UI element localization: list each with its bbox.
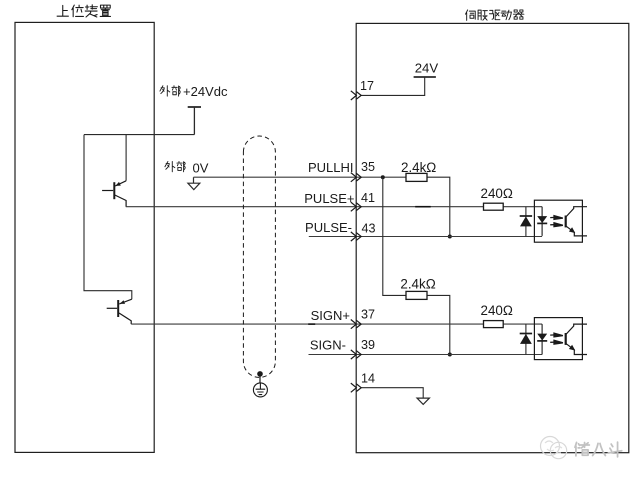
svg-text:PULLHI: PULLHI: [308, 160, 354, 175]
resistor R1 2.4kOhm: [406, 173, 427, 181]
wire left vertical rail: [84, 135, 132, 300]
pin 17 chevron: [351, 91, 361, 100]
svg-text:24V: 24V: [415, 61, 439, 76]
svg-text:240Ω: 240Ω: [481, 303, 513, 318]
resistor R2 240Ohm: [484, 203, 504, 210]
svg-text:SIGN+: SIGN+: [311, 308, 350, 323]
svg-text:41: 41: [361, 191, 375, 205]
optocoupler U2 box: [534, 318, 582, 360]
power symbol 24V bar: [414, 76, 436, 78]
transistor Q2: [107, 299, 132, 324]
watermark 储八斗: [575, 442, 589, 455]
optocoupler U1 box: [534, 200, 582, 242]
pin 43 chevron: [351, 232, 361, 241]
node junction R3/SIGN-: [448, 353, 452, 357]
Q2 emitter arrowhead: [120, 300, 125, 304]
U1 phototransistor: [566, 207, 587, 236]
diode D1 (clamp, channel 1): [520, 207, 532, 237]
svg-text:2.4kΩ: 2.4kΩ: [400, 276, 435, 291]
svg-text:PULSE+: PULSE+: [304, 191, 354, 206]
ground symbol pin14 (open arrow): [417, 398, 429, 404]
box: servo drive (right): [356, 23, 629, 452]
pin 41 chevron: [351, 202, 361, 211]
node junction pin35: [381, 175, 385, 179]
svg-text:PULSE-: PULSE-: [305, 220, 352, 235]
node junction R1/PULSE-: [448, 235, 452, 239]
svg-text:43: 43: [362, 221, 376, 235]
svg-text:+24Vdc: +24Vdc: [183, 84, 228, 99]
U1 emitter arrowhead: [569, 227, 575, 233]
svg-text:0V: 0V: [193, 160, 209, 175]
pin 14 chevron: [351, 383, 361, 392]
wire PULSE- rail: [309, 236, 542, 238]
U2 phototransistor: [566, 324, 587, 354]
wire 2.4k branch 2 from node35: [383, 177, 450, 354]
title: 伺服驱动器 (servo drive): [465, 10, 475, 20]
wire SIGN- rail: [309, 354, 543, 356]
svg-text:37: 37: [361, 308, 375, 322]
wire PULLHI / 0V net: [194, 176, 407, 178]
box: host device (left): [15, 22, 154, 452]
ground earth symbol (circled): [253, 383, 267, 397]
wire dark dash on SIGN+: [308, 323, 315, 325]
title: 上位装置 (host device): [57, 5, 68, 16]
node shield dot: [257, 371, 263, 377]
label 外部 0V: [165, 161, 175, 171]
wire pin17 / 24V: [361, 77, 425, 95]
power symbol 外部+24Vdc supply bar: [188, 107, 201, 135]
pin 37 chevron: [351, 320, 361, 329]
wire pin14: [361, 388, 423, 398]
watermark logo circles: [541, 437, 567, 459]
svg-text:240Ω: 240Ω: [481, 186, 513, 201]
diode D2 (clamp, channel 2): [520, 324, 532, 354]
U2 LED: [537, 324, 547, 354]
svg-text:39: 39: [361, 338, 375, 352]
wire Q1 emitter feed: [125, 135, 127, 181]
U2 emitter arrowhead: [569, 345, 575, 351]
wire R1 right to corner: [427, 177, 450, 236]
U2 light arrows: [550, 333, 563, 344]
wire SIGN+ rail: [131, 323, 542, 325]
label 外部+24Vdc: [160, 86, 170, 96]
wire PULSE+ rail: [126, 206, 542, 208]
shield oval (dashed cable): [243, 136, 275, 377]
U1 LED: [537, 207, 547, 236]
resistor R4 240Ohm: [484, 321, 504, 328]
wire dark dash on PULSE+: [415, 206, 431, 208]
svg-text:17: 17: [360, 79, 374, 93]
pin 39 chevron: [351, 350, 361, 359]
svg-text:35: 35: [361, 160, 375, 174]
wire shield to earth: [259, 374, 261, 383]
svg-text:2.4kΩ: 2.4kΩ: [401, 160, 436, 175]
transistor Q1: [102, 181, 126, 207]
ground symbol 0V (open arrow): [188, 177, 200, 189]
Q1 emitter arrowhead: [115, 182, 120, 186]
svg-text:SIGN-: SIGN-: [310, 337, 346, 352]
resistor R3 2.4kOhm: [406, 291, 427, 299]
pin 35 chevron: [351, 173, 361, 182]
U1 light arrows: [550, 216, 563, 227]
svg-text:14: 14: [361, 372, 375, 386]
wire +24V rail: [84, 134, 194, 136]
